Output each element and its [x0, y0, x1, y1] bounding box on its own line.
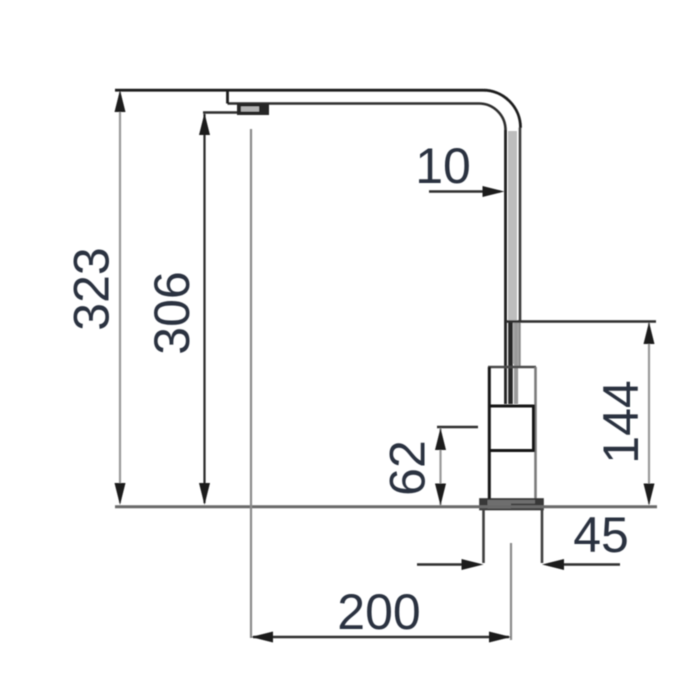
label 200 — [337, 584, 420, 640]
pipe interior fill — [508, 131, 517, 364]
dimension 45 right segment — [542, 559, 620, 570]
body middle right dark edge — [532, 406, 535, 451]
counter line — [115, 505, 657, 508]
dimension 144 extension line — [506, 320, 656, 322]
aerator — [237, 104, 269, 116]
dimension 306 extension line — [203, 111, 237, 113]
svg-text:200: 200 — [337, 584, 420, 640]
pipe right edge — [518, 128, 521, 367]
label 144 — [593, 380, 649, 463]
aerator center extension line — [250, 129, 252, 638]
body center extension line — [510, 543, 512, 640]
dimension 62 line — [435, 428, 446, 506]
body divider lower — [488, 449, 535, 452]
label 306 — [144, 271, 200, 354]
label 323 — [64, 247, 120, 330]
spout left end cap — [226, 90, 229, 103]
spout top line (with 323 extension) — [115, 90, 521, 128]
dimension 62 extension line — [437, 426, 478, 428]
svg-text:323: 323 — [64, 247, 120, 330]
dimension 306 line — [199, 113, 210, 505]
body divider upper — [488, 405, 535, 408]
svg-text:306: 306 — [144, 271, 200, 354]
body left edge — [488, 367, 491, 500]
dimension 10 leader — [429, 186, 505, 197]
svg-text:144: 144 — [593, 380, 649, 463]
shank left edge — [482, 509, 485, 563]
inner tube gray line — [514, 322, 518, 404]
body top edge — [488, 366, 536, 369]
shank right edge — [541, 509, 544, 563]
body right edge gray — [534, 367, 537, 500]
dimension 200 line — [251, 632, 511, 643]
svg-text:62: 62 — [380, 440, 436, 496]
dimension 144 line — [644, 322, 655, 506]
base plate — [480, 499, 544, 510]
inner tube dark line — [508, 322, 513, 404]
dimension 45 left segment — [417, 559, 484, 570]
label 45 — [573, 507, 629, 563]
svg-text:45: 45 — [573, 507, 629, 563]
label 10 — [415, 138, 471, 194]
pipe left edge — [504, 130, 507, 404]
label 62 — [380, 440, 436, 496]
spout bottom line — [228, 104, 506, 131]
svg-text:10: 10 — [415, 138, 471, 194]
dimension 323 line — [115, 90, 126, 505]
